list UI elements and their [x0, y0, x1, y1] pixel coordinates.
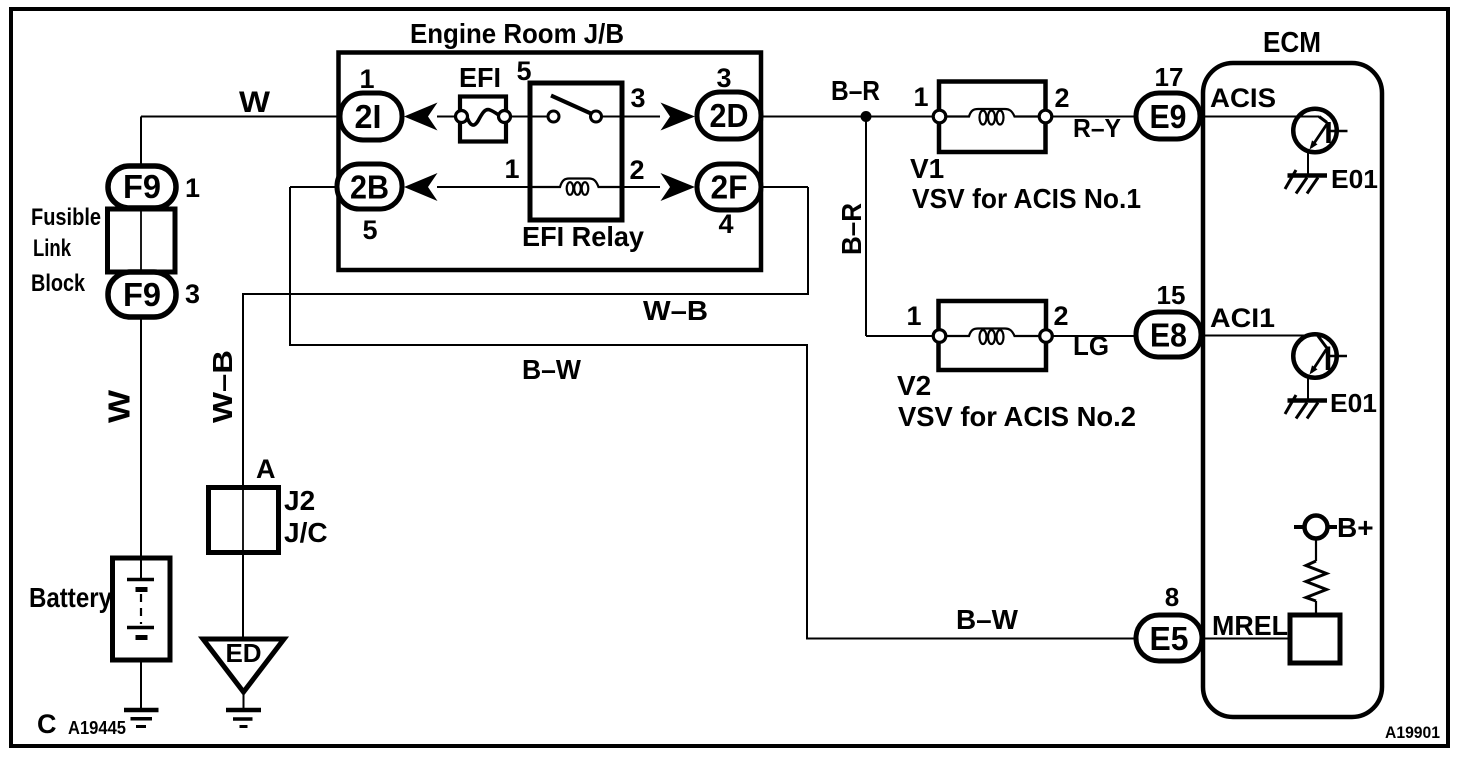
arrow into 2I: [404, 103, 438, 131]
svg-text:Block: Block: [31, 270, 86, 297]
wire through fusible link block: [140, 208, 142, 272]
B+ terminal: [1294, 525, 1337, 529]
svg-text:ED: ED: [225, 638, 261, 668]
svg-text:A: A: [256, 454, 276, 484]
resistor: [1306, 561, 1327, 601]
ground E01 row1: [1285, 170, 1327, 194]
svg-text:Fusible: Fusible: [31, 204, 101, 231]
svg-text:VSV for ACIS No.2: VSV for ACIS No.2: [898, 401, 1136, 432]
svg-text:E01: E01: [1331, 164, 1378, 194]
svg-text:2: 2: [1053, 301, 1068, 331]
relay switch wire: [530, 116, 548, 118]
wire ED to ground: [243, 691, 245, 709]
svg-text:MREL: MREL: [1212, 610, 1288, 641]
svg-text:A19901: A19901: [1385, 723, 1440, 742]
svg-text:E9: E9: [1150, 98, 1187, 135]
wire B-R vertical: [865, 117, 867, 337]
wire W horizontal: [141, 116, 340, 118]
svg-text:2B: 2B: [350, 169, 389, 206]
VSV V2 box: [939, 301, 1047, 370]
svg-text:3: 3: [716, 63, 731, 93]
wire through J2: [242, 489, 244, 553]
svg-text:1: 1: [359, 64, 374, 94]
svg-text:Link: Link: [33, 235, 71, 262]
svg-text:1: 1: [504, 154, 519, 184]
svg-text:E01: E01: [1330, 388, 1377, 418]
oval E8: [1136, 312, 1201, 357]
fusible link block box: [108, 209, 176, 272]
svg-text:W–B: W–B: [643, 295, 708, 326]
svg-text:1: 1: [185, 173, 200, 203]
wire resistor to MREL block: [1315, 601, 1317, 615]
wire J2 to ED: [242, 553, 244, 641]
svg-text:B–W: B–W: [522, 354, 582, 385]
svg-text:W–B: W–B: [207, 350, 238, 423]
ED triangle: [203, 639, 284, 692]
svg-text:B+: B+: [1337, 512, 1374, 543]
wire VSV1 to E9: [1051, 116, 1137, 118]
svg-text:VSV for ACIS No.1: VSV for ACIS No.1: [912, 183, 1141, 214]
battery plates: [127, 578, 154, 582]
oval F9 top: [108, 166, 176, 208]
svg-text:2: 2: [1054, 83, 1069, 113]
battery internal wire top: [140, 556, 142, 580]
wire 2B to relay: [437, 186, 530, 188]
svg-text:EFI Relay: EFI Relay: [522, 221, 644, 252]
svg-text:F9: F9: [123, 168, 161, 205]
oval 2B: [337, 164, 402, 209]
wire B-W path: [290, 187, 1137, 639]
relay switch contacts: [548, 111, 559, 122]
wire W vertical F9 to battery: [140, 315, 142, 580]
VSV V1 terminals: [933, 110, 946, 123]
relay EFI box: [530, 83, 622, 220]
VSV V1 coil: [947, 109, 1040, 117]
svg-text:2I: 2I: [355, 98, 382, 135]
svg-text:17: 17: [1155, 62, 1184, 92]
oval E5: [1136, 615, 1202, 661]
svg-text:1: 1: [913, 82, 928, 112]
ECM box: [1203, 63, 1382, 717]
svg-text:2F: 2F: [711, 169, 748, 206]
Engine Room J/B box: [339, 53, 762, 271]
svg-text:A19445: A19445: [68, 718, 126, 738]
svg-text:V1: V1: [910, 153, 944, 184]
svg-text:C: C: [37, 709, 57, 739]
svg-text:2D: 2D: [710, 97, 749, 134]
svg-text:ACIS: ACIS: [1210, 83, 1276, 113]
relay switch blade: [551, 96, 592, 115]
svg-text:LG: LG: [1073, 331, 1109, 361]
VSV V2 terminals: [933, 330, 946, 343]
svg-text:3: 3: [630, 83, 645, 113]
arrow into 2B: [404, 173, 438, 201]
oval 2D: [697, 92, 761, 139]
svg-text:V2: V2: [897, 370, 931, 401]
svg-text:J2: J2: [284, 485, 315, 516]
ground E01 row2: [1285, 395, 1327, 419]
VSV V1 box: [939, 82, 1046, 153]
wire 2I row segments: [437, 116, 457, 118]
arrow into 2F: [661, 173, 696, 201]
wire W-B path: [243, 187, 808, 489]
wire relay to 2F arrow: [622, 186, 660, 188]
svg-text:Engine Room J/B: Engine Room J/B: [410, 18, 624, 49]
svg-text:B–R: B–R: [836, 203, 867, 255]
svg-text:Battery: Battery: [29, 582, 112, 613]
svg-text:15: 15: [1157, 280, 1186, 310]
oval 2F: [697, 164, 761, 210]
svg-text:R–Y: R–Y: [1073, 113, 1121, 143]
svg-text:B–W: B–W: [956, 604, 1019, 635]
oval F9 bottom: [108, 272, 176, 317]
wire E9 to transistor1: [1199, 116, 1319, 118]
ground below ED: [226, 708, 261, 713]
svg-text:1: 1: [906, 301, 921, 331]
wire 2F to corner: [761, 186, 808, 188]
svg-text:5: 5: [362, 215, 377, 245]
relay coil: [530, 179, 622, 188]
wire E8 to transistor2: [1200, 335, 1318, 337]
svg-text:2: 2: [629, 155, 644, 185]
svg-text:F9: F9: [123, 276, 161, 313]
svg-text:3: 3: [185, 279, 200, 309]
svg-text:ACI1: ACI1: [1210, 303, 1275, 333]
arrow into 2D: [661, 103, 696, 131]
transistor Q1: [1293, 109, 1347, 174]
wire B+ to resistor: [1315, 539, 1317, 562]
oval 2I: [340, 93, 402, 140]
battery box: [113, 558, 171, 660]
svg-text:ECM: ECM: [1263, 27, 1321, 59]
MREL block: [1290, 615, 1340, 663]
wire W vertical to F9: [140, 117, 142, 169]
svg-text:E8: E8: [1150, 317, 1187, 354]
svg-text:W: W: [102, 389, 137, 423]
wire battery to ground: [140, 637, 142, 709]
svg-text:B–R: B–R: [831, 75, 880, 106]
fuse EFI box: [460, 97, 506, 142]
wire VSV2 to E8: [1051, 335, 1137, 337]
wire B-R to VSV2: [866, 335, 934, 337]
wire 2D to VSV1: [761, 116, 934, 118]
svg-text:J/C: J/C: [284, 517, 328, 548]
fuse terminal circles: [456, 111, 468, 123]
node B-R junction: [861, 111, 872, 122]
wire E5 to MREL: [1201, 638, 1290, 640]
svg-text:E5: E5: [1150, 620, 1189, 657]
svg-text:8: 8: [1165, 582, 1179, 612]
svg-text:4: 4: [718, 209, 733, 239]
svg-text:W: W: [239, 86, 271, 119]
VSV V2 coil: [947, 329, 1040, 337]
oval E9: [1136, 93, 1200, 139]
wire 2B row left stub: [290, 186, 338, 188]
J2 J/C junction box: [209, 488, 279, 553]
transistor Q2: [1293, 334, 1347, 399]
ground below battery: [124, 708, 159, 713]
svg-text:EFI: EFI: [459, 62, 501, 93]
fuse wave: [467, 110, 501, 125]
